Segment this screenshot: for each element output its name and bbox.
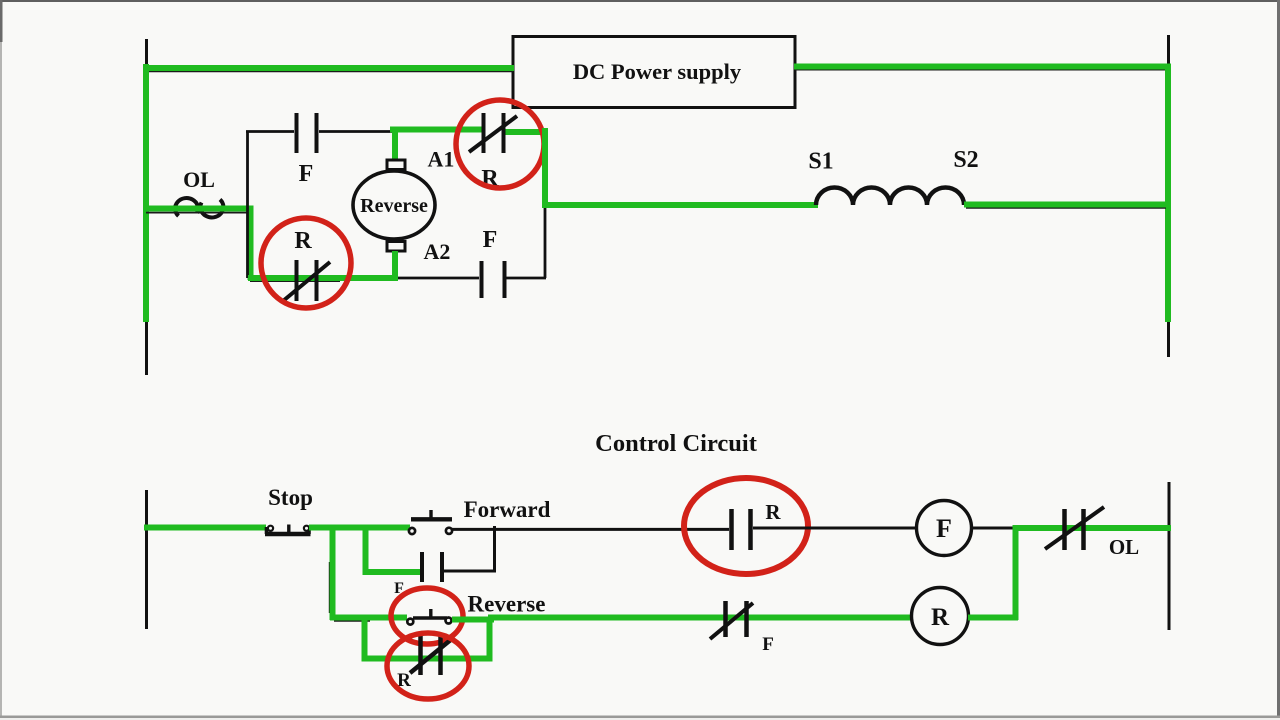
wire: green riser from R coil row to OL row (1013, 525, 1019, 620)
svg-text:F: F (762, 634, 774, 655)
pushbutton Stop (NC) (265, 525, 311, 535)
label S1 (808, 149, 833, 175)
motor terminal A1 stem (green) (387, 128, 405, 170)
wire: black rung from Forward to R contact (452, 528, 729, 531)
label S2 (953, 147, 978, 173)
svg-text:A2: A2 (424, 239, 451, 264)
wire: black under S2 wire (966, 207, 1166, 209)
contact F (power, top row NO) (297, 113, 317, 187)
svg-text:R: R (765, 500, 781, 524)
red highlight circle around top R contact (456, 100, 544, 188)
label A2 (424, 239, 451, 264)
wire: left rail green overlay (143, 66, 149, 322)
svg-text:Control Circuit: Control Circuit (595, 430, 758, 457)
label Forward (464, 497, 551, 522)
wire: black under OL row (146, 212, 250, 214)
branch box left edge (246, 131, 249, 278)
wire: black bus under green (right) (795, 69, 1167, 71)
label Reverse (pushbutton) (468, 592, 546, 617)
label Stop (268, 485, 313, 510)
wire: green from Reverse button to bypass corner (452, 617, 494, 623)
wire: black under drop to Reverse rung (329, 562, 331, 613)
wire: green top row from R contact to right edge (502, 129, 546, 135)
contact R (seal-in, NO) (732, 500, 782, 550)
right rail L2 (power) (1167, 35, 1170, 357)
wire: black from F holding contact up to node B (444, 526, 495, 571)
svg-text:F: F (936, 514, 952, 543)
title: Control Circuit (595, 430, 758, 457)
right rail (control) (1168, 482, 1171, 630)
wire: black under bottom row (250, 280, 340, 282)
svg-text:OL: OL (1109, 535, 1139, 559)
left rail L1 (power) (145, 39, 148, 375)
wire: green rung from left rail to Stop (144, 525, 266, 531)
wire: green drop to F holding contact (366, 525, 424, 572)
wire: top-left green bus from left rail to DC supply box (146, 64, 514, 68)
wire: black under Reverse rung (334, 620, 370, 622)
svg-text:S2: S2 (953, 147, 978, 173)
svg-text:Reverse: Reverse (468, 592, 546, 617)
wire: top row left black segment (246, 130, 394, 133)
motor M (Reverse) (353, 171, 435, 239)
svg-text:R: R (931, 604, 950, 631)
red highlight ellipse around R interlock (387, 633, 469, 699)
wire: green from Stop to Forward (309, 525, 410, 531)
red highlight circle around bottom R contact (261, 218, 351, 308)
wire: bottom row black segment to F contact (398, 277, 546, 280)
motor terminal A2 stem (green) (387, 242, 405, 282)
overload heater OL (power) (175, 167, 223, 217)
svg-text:S1: S1 (808, 149, 833, 175)
wire: black from F coil to OL junction (971, 527, 1014, 530)
wire: green bottom row from left edge to A2 (248, 275, 398, 281)
wire: black bus under green (left) (148, 70, 513, 72)
wire: green from bypass corner to F NC contact and R coil (488, 615, 913, 621)
inductor S1-S2 (series field coil) (816, 188, 964, 206)
wire: green right edge overlay down to S row (545, 128, 818, 205)
red highlight ellipse around Reverse button (391, 588, 463, 644)
svg-text:DC Power supply: DC Power supply (573, 59, 742, 84)
pushbutton Reverse (NO) (407, 609, 451, 625)
contact R (power, bottom row NC with slash) (283, 228, 330, 301)
wire: green through OL to right rail (1013, 525, 1171, 531)
wire: green bypass loop around R interlock (365, 617, 490, 659)
svg-text:Forward: Forward (464, 497, 551, 522)
label A1 (428, 147, 455, 172)
svg-text:A1: A1 (428, 147, 455, 172)
contact F (holding, NO) (394, 552, 442, 597)
svg-text:Reverse: Reverse (360, 195, 428, 217)
coil R (912, 588, 969, 645)
contact F (power, bottom row NO) (482, 227, 505, 298)
wire: green top row from motor stem to R contact (390, 127, 484, 133)
contact R (interlock, NC with slash) (397, 634, 453, 691)
left rail (control) (145, 490, 148, 629)
wire: top-right green bus from DC supply box to right rail (794, 67, 1168, 71)
wire: green from S2 to right rail (964, 202, 1171, 208)
red highlight ellipse around R contact (684, 478, 808, 574)
coil F (917, 501, 972, 556)
wire: green from R coil to riser (968, 615, 1018, 621)
svg-text:F: F (483, 227, 498, 253)
wire: green OL row from left rail to branch box (143, 209, 251, 281)
svg-text:OL: OL (183, 167, 215, 192)
DC power supply box (513, 37, 795, 108)
wire: green drop to Reverse rung (330, 525, 336, 620)
wire: right rail green overlay (1165, 66, 1171, 322)
svg-text:Stop: Stop (268, 485, 313, 510)
pushbutton Forward (NO) (409, 510, 452, 534)
wire: green Reverse rung from drop to button (330, 615, 407, 621)
branch box right edge (544, 131, 547, 278)
contact R (power, top row NC with slash) (469, 113, 517, 192)
wire: black from R contact to F coil (753, 527, 917, 530)
contact F (interlock, NC with slash) (710, 601, 774, 655)
svg-text:R: R (294, 228, 312, 254)
svg-text:F: F (299, 161, 314, 187)
contact OL (NC with slash) (1045, 507, 1139, 559)
